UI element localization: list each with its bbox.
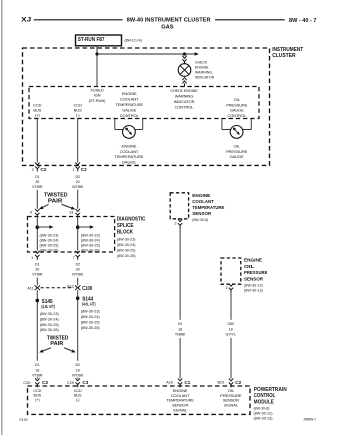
svg-text:20: 20	[35, 180, 39, 184]
svg-text:9: 9	[30, 210, 32, 215]
engine coolant temperature gauge	[114, 119, 116, 130]
svg-text:XJ: XJ	[21, 17, 32, 24]
svg-text:(8W-30-8): (8W-30-8)	[254, 407, 271, 411]
engine coolant temperature sensor box	[170, 193, 188, 219]
sensor pin 2	[178, 219, 182, 228]
svg-text:(8W-30-8): (8W-30-8)	[192, 218, 208, 222]
svg-text:(8W-30-26): (8W-30-26)	[40, 328, 60, 332]
header rule left	[34, 19, 123, 21]
svg-text:MODULE: MODULE	[254, 399, 275, 405]
svg-text:(8W-30-13): (8W-30-13)	[254, 417, 274, 421]
svg-text:2: 2	[32, 167, 34, 172]
svg-text:ST-RUN F87: ST-RUN F87	[78, 37, 105, 43]
svg-text:SIGNAL: SIGNAL	[173, 407, 188, 412]
svg-text:(ST-RUN): (ST-RUN)	[89, 98, 107, 103]
splice block pin 1	[35, 251, 39, 260]
wire D1 stub	[36, 377, 38, 378]
splice block pin 9	[35, 209, 39, 218]
svg-text:BUS: BUS	[74, 394, 82, 398]
svg-text:TEMPERATURE: TEMPERATURE	[115, 102, 143, 107]
svg-text:TN/BK: TN/BK	[175, 333, 186, 337]
svg-text:ENGINE: ENGINE	[122, 91, 137, 96]
twisted pair arrows upper	[43, 204, 49, 207]
svg-text:2: 2	[175, 222, 177, 226]
svg-text:COOLANT: COOLANT	[120, 149, 139, 154]
svg-text:(8W-30-23): (8W-30-23)	[40, 233, 60, 237]
svg-text:18: 18	[178, 327, 182, 331]
svg-text:INDICATOR: INDICATOR	[195, 75, 214, 80]
svg-text:PAIR: PAIR	[50, 341, 63, 347]
svg-text:G60: G60	[227, 322, 234, 326]
splice S144	[76, 296, 80, 300]
svg-text:PRESSURE: PRESSURE	[244, 270, 268, 275]
svg-text:CONTROL: CONTROL	[254, 393, 275, 399]
svg-text:BUS: BUS	[34, 394, 42, 398]
svg-text:CONTROL: CONTROL	[227, 113, 247, 118]
connector C100 at D2 cavity A12	[75, 285, 80, 290]
svg-text:VT/BR: VT/BR	[32, 374, 43, 378]
connector C2 cavity 1	[76, 163, 80, 172]
svg-text:(8W-12-14): (8W-12-14)	[125, 39, 143, 43]
twisted pair arrows lower	[43, 348, 51, 351]
svg-text:ENGINE: ENGINE	[122, 143, 137, 148]
lamp connector bottom	[182, 78, 186, 87]
svg-text:D1: D1	[35, 363, 40, 367]
splice junction D2	[76, 225, 80, 229]
svg-text:7: 7	[73, 255, 75, 260]
svg-text:C3: C3	[42, 380, 48, 385]
svg-text:(8W-30-26): (8W-30-26)	[117, 254, 136, 258]
svg-text:OIL: OIL	[234, 97, 241, 102]
svg-text:C1: C1	[184, 380, 190, 385]
diagnostic splice block box	[28, 217, 115, 253]
svg-text:(8W-30-23): (8W-30-23)	[81, 233, 101, 237]
svg-text:A16: A16	[166, 381, 173, 385]
wire D2 to splice block	[77, 190, 79, 209]
svg-text:CONTROL: CONTROL	[175, 104, 195, 109]
svg-text:C100: C100	[82, 286, 92, 292]
svg-text:GAUGE: GAUGE	[230, 108, 244, 113]
svg-text:GY/YL: GY/YL	[226, 333, 236, 337]
svg-text:(8W-30-26): (8W-30-26)	[81, 249, 101, 253]
svg-text:SPLICE: SPLICE	[117, 223, 134, 229]
svg-text:C20: C20	[23, 381, 30, 385]
oil pressure gauge	[221, 119, 223, 130]
splice block pin 13	[76, 209, 80, 218]
svg-text:C29: C29	[67, 381, 74, 385]
svg-text:(8W-30-13): (8W-30-13)	[244, 289, 264, 293]
svg-text:7478: 7478	[19, 418, 27, 422]
connector C3 cavity C29	[76, 378, 80, 387]
svg-text:BLOCK: BLOCK	[117, 230, 133, 236]
svg-text:TEMPERATURE: TEMPERATURE	[192, 205, 224, 210]
svg-text:PRESSURE: PRESSURE	[226, 149, 248, 154]
svg-text:(8W-30-12): (8W-30-12)	[244, 283, 264, 287]
svg-text:CONTROL: CONTROL	[120, 113, 140, 118]
svg-text:IGN: IGN	[94, 93, 101, 98]
svg-text:(8W-30-24): (8W-30-24)	[40, 317, 60, 321]
svg-text:8W - 40 - 7: 8W - 40 - 7	[289, 18, 317, 24]
wire D2 stub	[77, 377, 79, 378]
check engine warning indicator lamp	[178, 64, 191, 77]
svg-text:GAS: GAS	[161, 25, 174, 31]
svg-text:(8W-30-24): (8W-30-24)	[81, 238, 101, 242]
wire G60 lower	[230, 338, 232, 378]
junction at indicator branch	[183, 52, 186, 55]
svg-text:(+): (+)	[35, 112, 40, 117]
svg-text:(8W-30-24): (8W-30-24)	[81, 315, 101, 319]
svg-text:SENSOR: SENSOR	[244, 276, 264, 281]
svg-text:C2: C2	[40, 167, 46, 172]
svg-text:(8W-30-25): (8W-30-25)	[40, 244, 60, 248]
svg-text:(8W-30-25): (8W-30-25)	[40, 323, 60, 327]
svg-text:COOLANT: COOLANT	[192, 199, 214, 204]
svg-text:C2: C2	[81, 167, 87, 172]
svg-text:PAIR: PAIR	[48, 198, 63, 204]
svg-text:GAUGE: GAUGE	[122, 159, 136, 164]
svg-text:WT/BK: WT/BK	[72, 272, 84, 276]
connector C2 cavity 2	[35, 163, 39, 172]
svg-text:18: 18	[76, 368, 80, 372]
svg-text:(4.0L A/T): (4.0L A/T)	[41, 304, 55, 309]
connector C3 cavity C20	[35, 378, 39, 387]
connector C2 cavity B23	[229, 378, 233, 387]
wire fused ign feed	[96, 46, 98, 87]
svg-text:K2: K2	[178, 322, 182, 326]
wire D2 to PCM	[77, 290, 79, 361]
wire D1 to PCM	[36, 290, 38, 361]
svg-text:(4.0L A/T): (4.0L A/T)	[82, 302, 96, 307]
svg-text:PRESSURE: PRESSURE	[226, 102, 248, 107]
svg-text:OIL: OIL	[234, 143, 241, 148]
page edge shading	[1, 0, 2, 435]
svg-text:(8W-30-25): (8W-30-25)	[81, 320, 101, 324]
svg-text:(8W-30-23): (8W-30-23)	[40, 312, 60, 316]
wire G60 upper	[230, 293, 232, 320]
svg-text:CCD: CCD	[74, 389, 82, 393]
svg-text:8W-40 INSTRUMENT CLUSTER: 8W-40 INSTRUMENT CLUSTER	[127, 18, 211, 24]
svg-text:WT/BK: WT/BK	[72, 374, 84, 378]
lamp connector top	[182, 56, 186, 64]
svg-text:J998W-7: J998W-7	[303, 417, 316, 421]
svg-text:FUSED: FUSED	[90, 87, 103, 92]
svg-text:VT/BR: VT/BR	[32, 272, 43, 276]
wire D1 to splice block	[36, 190, 38, 209]
wire D1 inside splice block	[36, 218, 38, 251]
arrow continuation	[195, 52, 199, 56]
svg-text:COOLANT: COOLANT	[120, 96, 139, 101]
svg-text:CLUSTER: CLUSTER	[272, 53, 296, 59]
svg-text:C2: C2	[235, 380, 241, 385]
connector C100 at D1 cavity A11	[35, 285, 40, 290]
fuse feed box ST-RUN F87	[76, 35, 122, 46]
sensor pin 2 oil	[229, 284, 233, 293]
cluster circuit board box	[29, 87, 259, 119]
header rule right	[215, 19, 285, 21]
svg-text:13: 13	[69, 210, 73, 215]
svg-text:GAUGE: GAUGE	[230, 154, 244, 159]
svg-text:18: 18	[229, 327, 233, 331]
svg-text:(8W-30-25): (8W-30-25)	[117, 249, 136, 253]
splice junction D1	[36, 225, 40, 229]
svg-text:20: 20	[76, 180, 80, 184]
svg-text:A11: A11	[27, 287, 33, 291]
engine oil pressure sensor box	[221, 258, 241, 284]
svg-text:C3: C3	[82, 380, 88, 385]
svg-text:OIL: OIL	[244, 264, 255, 269]
svg-text:DIAGNOSTIC: DIAGNOSTIC	[117, 217, 146, 223]
svg-text:(8W-30-26): (8W-30-26)	[81, 326, 101, 330]
svg-text:CCD: CCD	[33, 389, 41, 393]
junction at fused ign wire	[95, 52, 98, 55]
connector C1 cavity A16	[178, 378, 182, 387]
svg-text:D1: D1	[35, 262, 40, 266]
svg-text:ENGINE: ENGINE	[244, 257, 262, 262]
wire D2 inside splice block	[77, 218, 79, 251]
svg-text:INDICATOR: INDICATOR	[174, 99, 195, 104]
svg-text:D2: D2	[75, 175, 80, 179]
svg-text:GAUGE: GAUGE	[122, 107, 136, 112]
svg-text:20: 20	[76, 267, 80, 271]
svg-text:ENGINE: ENGINE	[192, 193, 210, 198]
svg-text:(8W-30-25): (8W-30-25)	[81, 244, 101, 248]
svg-text:(8W-30-24): (8W-30-24)	[117, 243, 136, 247]
wire ccd bus plus	[36, 119, 38, 163]
splice block pin 7	[76, 251, 80, 260]
svg-text:SIGNAL: SIGNAL	[224, 402, 239, 407]
wire ccd bus minus	[77, 119, 79, 163]
svg-text:B23: B23	[217, 381, 224, 385]
wire branch to indicator	[97, 53, 195, 55]
powertrain control module box	[28, 386, 251, 414]
wire D1 to C100	[36, 278, 38, 286]
svg-text:(8W-30-24): (8W-30-24)	[40, 238, 60, 242]
svg-text:(8W-30-23): (8W-30-23)	[117, 238, 136, 242]
svg-text:20: 20	[35, 267, 39, 271]
instrument cluster box	[23, 48, 270, 165]
wire K2 upper	[179, 228, 181, 320]
connector C100 line	[41, 287, 75, 289]
svg-text:(8W-30-26): (8W-30-26)	[40, 249, 60, 253]
svg-text:CHECK ENGINE: CHECK ENGINE	[170, 88, 198, 93]
wire K2 lower	[179, 338, 181, 378]
svg-text:D2: D2	[75, 262, 80, 266]
svg-text:2: 2	[226, 286, 228, 290]
svg-text:(8W-30-23): (8W-30-23)	[81, 310, 101, 314]
svg-text:D2: D2	[75, 363, 80, 367]
svg-text:18: 18	[35, 368, 39, 372]
svg-text:POWERTRAIN: POWERTRAIN	[254, 387, 287, 393]
svg-text:A12: A12	[67, 284, 74, 288]
svg-text:TEMPERATURE: TEMPERATURE	[114, 154, 143, 159]
svg-text:SENSOR: SENSOR	[192, 211, 212, 216]
svg-text:WARNING: WARNING	[175, 93, 193, 98]
svg-text:WT/BK: WT/BK	[72, 185, 84, 189]
svg-text:1: 1	[31, 255, 33, 260]
svg-text:VT/BR: VT/BR	[32, 185, 43, 189]
svg-text:(8W-30-12): (8W-30-12)	[254, 412, 274, 416]
svg-text:D1: D1	[35, 175, 40, 179]
splice S145	[36, 299, 40, 303]
svg-text:1: 1	[72, 167, 74, 172]
wire D2 to C100	[77, 278, 79, 286]
